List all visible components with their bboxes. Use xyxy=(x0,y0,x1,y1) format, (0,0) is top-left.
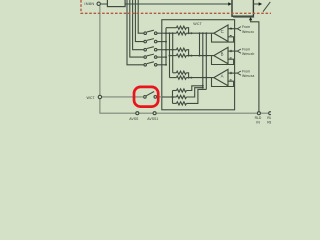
wire inner vertical V3 xyxy=(172,33,174,73)
junction dots left bus xyxy=(165,32,174,66)
wire row4 into box xyxy=(162,56,166,58)
bus wire 2 (feeds switch row 4) xyxy=(130,0,144,57)
svg-text:From: From xyxy=(242,47,250,51)
junction dots parallel right xyxy=(202,85,204,89)
wire vertical IN8N down to WCT (grey) xyxy=(99,6,101,114)
svg-text:AVSS: AVSS xyxy=(129,117,139,121)
arrowhead up into RLD mux box xyxy=(249,17,252,20)
resistor R5 (A upper) xyxy=(176,71,186,74)
bus wire 3 (feeds switch row 3) xyxy=(133,0,144,50)
wire filter box to RLD mux box xyxy=(125,3,229,5)
resistor R8 xyxy=(177,95,187,98)
resistor R6 (A lower) xyxy=(176,76,186,79)
filter box xyxy=(107,0,125,7)
wire row1 / C-lower feed xyxy=(162,32,176,34)
wire R9 right join xyxy=(186,89,206,103)
wire V2 stub to R B-lower xyxy=(170,55,177,57)
switch S1 row1 xyxy=(144,30,162,34)
resistor R2 (C lower) xyxy=(176,32,186,35)
terminal WCT xyxy=(98,95,101,98)
svg-text:WCT: WCT xyxy=(193,22,202,26)
svg-text:RLD: RLD xyxy=(255,116,262,120)
resistor R1 (C upper) xyxy=(176,26,186,29)
svg-text:From: From xyxy=(242,69,250,73)
wire switch to box (grey) xyxy=(157,96,162,98)
wire V2 bottom elbow to R A-lower xyxy=(170,77,177,79)
terminal IN8N xyxy=(97,2,100,5)
wire RLD IN riser xyxy=(251,20,259,114)
resistor R7 xyxy=(177,89,187,92)
svg-text:Wmuxa: Wmuxa xyxy=(242,74,254,78)
wire inner vertical V2 xyxy=(169,33,171,77)
op-amp U-B xyxy=(212,47,255,64)
switch S5 row5 xyxy=(144,62,162,66)
wire inner vertical V1 xyxy=(165,28,167,65)
wire output row A xyxy=(186,77,214,79)
wire R3 elbow down to B row xyxy=(186,50,188,56)
bus wire 4 (feeds switch row 2) xyxy=(135,0,144,42)
RLD mux box shadow xyxy=(233,17,254,19)
switch S3 row3 xyxy=(144,47,162,51)
wire R9 leads xyxy=(173,102,177,104)
wire common vertical V6 (WCT node) xyxy=(202,33,204,87)
wire parallel resistor left vertical xyxy=(172,91,174,104)
wire WCT entry into box xyxy=(162,96,173,98)
wire row3 / B-upper feed xyxy=(162,49,176,51)
wire V3 bottom elbow to R A-upper xyxy=(173,72,177,74)
annotation red highlight around WCT switch xyxy=(134,87,158,107)
svg-text:IN8N: IN8N xyxy=(84,1,94,6)
switch S-WCT (highlighted) xyxy=(144,92,157,99)
wire R7 right elbow up to WCT node xyxy=(186,86,202,91)
svg-text:B: B xyxy=(221,52,224,57)
switch S4 row4 xyxy=(144,54,162,58)
svg-text:From: From xyxy=(242,25,250,29)
resistor R4 (B lower) xyxy=(176,54,186,57)
wire R5 elbow down to A row xyxy=(186,73,188,78)
resistor R9 xyxy=(177,102,187,105)
dashed channel boundary (orange) xyxy=(81,0,271,13)
wire R8 leads xyxy=(173,96,177,98)
svg-text:IN: IN xyxy=(256,121,260,125)
wire output row C xyxy=(186,32,214,34)
wire common vertical V5 xyxy=(199,33,201,55)
WCT network box xyxy=(162,20,235,110)
wire output row B xyxy=(186,55,214,57)
wire out of RLD mux box xyxy=(253,3,258,5)
switch S2 row2 xyxy=(144,39,162,43)
arrowhead to RLD switch xyxy=(259,2,263,5)
wire row2 into box xyxy=(162,41,166,43)
RLD mux box (top right, cut off) xyxy=(232,0,253,16)
svg-text:REF: REF xyxy=(267,121,271,125)
op-amp U-C xyxy=(212,25,255,42)
svg-text:AVSS1: AVSS1 xyxy=(147,117,158,121)
wire V1 top elbow to R C-upper xyxy=(166,27,176,29)
arrowhead into RLD mux box xyxy=(228,2,232,5)
wire R8 right elbow up to WCT node xyxy=(186,88,202,97)
wire IN8N to filter box xyxy=(100,3,107,5)
wire AVSS bus (grey) xyxy=(99,112,271,114)
bus wire 1 (feeds switch row 5) xyxy=(127,0,144,65)
terminal RLD IN xyxy=(257,112,260,115)
terminal AVSS1 xyxy=(153,112,156,115)
terminal AVSS xyxy=(136,112,139,115)
wire WCT terminal to switch (grey) xyxy=(102,96,144,98)
svg-text:WCT: WCT xyxy=(87,96,96,100)
wire R1 elbow down to C row xyxy=(186,28,188,34)
op-amp U-A xyxy=(212,69,255,86)
resistor R3 (B upper) xyxy=(176,48,186,51)
junction dot parallel left xyxy=(172,96,174,98)
svg-text:Wmuxc: Wmuxc xyxy=(242,30,254,34)
terminal right edge xyxy=(269,112,272,115)
wire row5 into box xyxy=(162,64,166,66)
junction dots output rows xyxy=(188,32,208,78)
wire R7 leads xyxy=(173,90,177,92)
switch RLD (top right diagonal) xyxy=(263,2,270,12)
bus wire 5 (feeds switch row 1) xyxy=(138,0,144,33)
svg-text:A: A xyxy=(221,74,224,79)
wire common vertical V7 xyxy=(205,33,207,89)
svg-text:RLD: RLD xyxy=(267,116,271,120)
svg-text:Wmuxb: Wmuxb xyxy=(242,52,254,56)
svg-text:C: C xyxy=(221,29,224,34)
